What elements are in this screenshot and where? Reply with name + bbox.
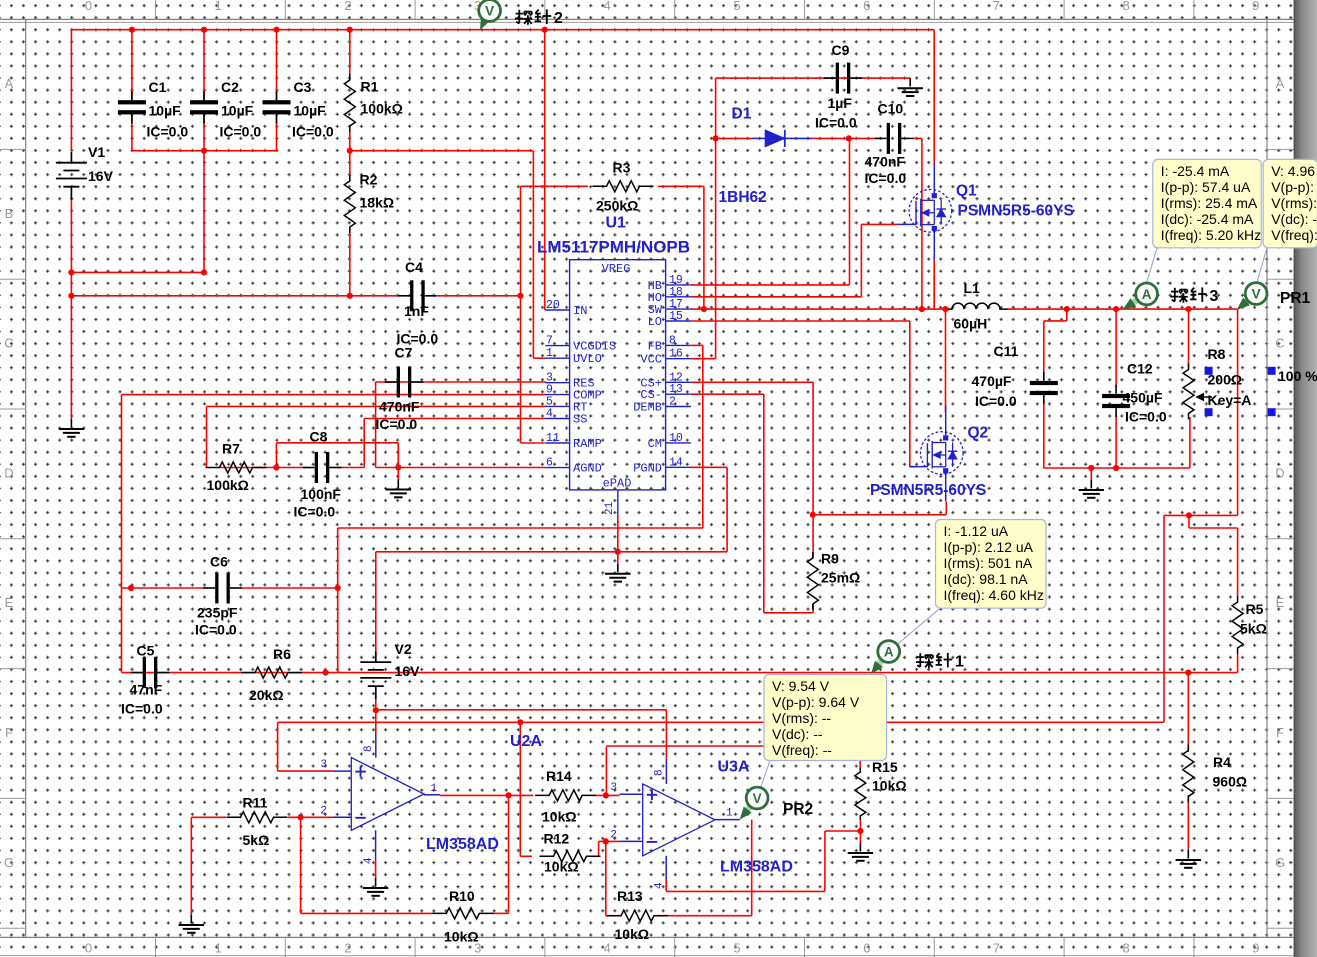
svg-text:5: 5 [733, 0, 740, 13]
wire VCC row [691, 358, 716, 360]
wire C11 bottom [1043, 402, 1045, 468]
ground ePAD [617, 552, 619, 564]
op-amp-style IC U1 LM5117 box [570, 260, 666, 490]
svg-text:R13: R13 [617, 888, 643, 904]
ruler row ticks left and right [0, 148, 26, 150]
wire C6 row left [122, 587, 206, 589]
resistor R6 [241, 667, 302, 678]
wire R10 row left [301, 912, 433, 914]
transistor Q1 circle [909, 190, 952, 233]
U1 pin 5 RT [545, 405, 569, 407]
svg-text:8: 8 [1122, 941, 1129, 956]
svg-text:RAMP: RAMP [573, 437, 602, 451]
svg-text:100nF: 100nF [301, 486, 342, 502]
U1 pin 10 CM [666, 442, 691, 444]
svg-text:V(p-p):: V(p-p): [1271, 179, 1314, 195]
svg-text:100kΩ: 100kΩ [207, 477, 249, 493]
wire C10 down to SW [921, 138, 923, 309]
svg-text:470µF: 470µF [972, 373, 1012, 389]
wire top 16V bus [71, 29, 934, 31]
svg-text:SS: SS [573, 413, 587, 427]
wire RAMP pin feed [521, 442, 545, 444]
wire C7 left down to AGND [375, 382, 377, 468]
svg-text:10µF: 10µF [149, 103, 182, 119]
wire R9 bottom row [764, 612, 813, 614]
svg-text:IC=0.0: IC=0.0 [147, 124, 189, 140]
battery V2 [375, 651, 377, 662]
svg-text:10: 10 [669, 432, 683, 445]
wire sense column crossing bus [1163, 515, 1165, 722]
wire CS- down [763, 394, 765, 613]
measurement box I -1.12uA [936, 520, 1047, 609]
probe PR1 V circle [1245, 283, 1267, 305]
svg-text:C11: C11 [994, 343, 1019, 359]
wire R3 left down to C4 node [520, 186, 522, 295]
svg-text:C2: C2 [221, 79, 239, 95]
svg-text:9: 9 [1252, 941, 1259, 956]
svg-text:16V: 16V [395, 663, 421, 679]
svg-text:PR1: PR1 [1280, 290, 1311, 307]
wire Vout row2 [1189, 527, 1238, 529]
U1 pin 2 DEMB [666, 406, 691, 408]
U1 pin 13 CS- [666, 393, 691, 395]
wire C12 top [1115, 309, 1117, 387]
svg-text:IC=0.0: IC=0.0 [815, 115, 857, 131]
wire U3A pin4 red [665, 880, 667, 892]
resistor R14 [535, 790, 596, 801]
svg-text:C5: C5 [137, 643, 155, 659]
svg-text:470nF: 470nF [865, 154, 906, 170]
wire U3A pin3 up [605, 746, 607, 795]
svg-text:C6: C6 [210, 554, 228, 570]
capacitor C9 [836, 63, 839, 94]
wire V1 minus down to ground [70, 199, 72, 407]
svg-text:C8: C8 [310, 429, 328, 445]
ground R4 [1187, 849, 1189, 851]
wire output voltage bus [122, 672, 1238, 674]
svg-text:V(dc): --: V(dc): -- [1271, 211, 1317, 227]
svg-text:PSMN5R5-60YS: PSMN5R5-60YS [870, 482, 986, 499]
probe label tanzhen1 [916, 653, 952, 668]
svg-text:I: -1.12 uA: I: -1.12 uA [944, 523, 1009, 539]
capacitor C2 [190, 100, 218, 104]
svg-text:A: A [5, 76, 14, 91]
svg-text:7: 7 [993, 0, 1000, 13]
svg-text:F: F [1276, 725, 1284, 740]
wire COMP row [122, 394, 547, 396]
battery V1 [70, 152, 72, 163]
resistor R7 [206, 462, 267, 473]
svg-text:5kΩ: 5kΩ [1240, 621, 1267, 637]
wire R11 right to pin2 [288, 816, 333, 818]
svg-text:21: 21 [604, 501, 616, 515]
wire HB row [691, 284, 850, 286]
svg-text:1BH62: 1BH62 [719, 189, 767, 206]
svg-text:5: 5 [733, 941, 740, 956]
svg-text:47nF: 47nF [130, 682, 163, 698]
wire R14 right to U3A pin3 [596, 794, 620, 796]
svg-text:8: 8 [669, 334, 676, 347]
wire R15 top hidden [859, 746, 861, 769]
wire U2A pin3 lead [278, 770, 333, 772]
wire output jog left [1044, 320, 1067, 322]
ground C9 [909, 78, 911, 86]
svg-text:18kΩ: 18kΩ [360, 195, 395, 211]
wire C1 bottom [131, 113, 133, 151]
svg-text:R12: R12 [544, 831, 570, 847]
wire R8 top [1188, 309, 1190, 366]
wire PGND stub row [691, 466, 727, 468]
U3A pin stubs [620, 793, 643, 795]
svg-text:LM358AD: LM358AD [426, 836, 499, 853]
svg-text:8: 8 [654, 769, 666, 776]
svg-text:1µF: 1µF [828, 95, 853, 111]
svg-text:2: 2 [320, 806, 327, 818]
wire R5 bottom [1237, 654, 1239, 673]
probe PR2 V arrow [745, 806, 751, 813]
svg-text:9: 9 [1252, 0, 1259, 13]
U1 pin 19 HB [666, 284, 691, 286]
svg-text:R11: R11 [243, 795, 268, 811]
op-amp U3A plus minus [647, 794, 658, 796]
svg-text:1: 1 [955, 654, 964, 671]
svg-text:LM358AD: LM358AD [720, 859, 793, 876]
probe PR-top V circle [479, 0, 501, 21]
svg-text:3: 3 [320, 759, 327, 771]
capacitor C4 [410, 280, 413, 311]
ruler band frame lines [0, 18, 1294, 20]
capacitor C6 [215, 573, 218, 604]
wire U2A pin3 drop [277, 722, 279, 771]
wire Q1 gate lead red [861, 223, 898, 225]
svg-text:AGND: AGND [573, 462, 602, 476]
diode D1 [752, 137, 765, 139]
U1 pin 4 SS [545, 418, 569, 420]
svg-text:R10: R10 [449, 888, 475, 904]
svg-text:3: 3 [610, 782, 617, 794]
svg-text:60µH: 60µH [954, 316, 988, 332]
wire C2 bottom [203, 113, 205, 151]
wire U3A pin4 ground row [666, 890, 825, 892]
svg-text:2: 2 [610, 830, 617, 842]
svg-text:C: C [1275, 336, 1284, 351]
svg-text:R8: R8 [1208, 346, 1226, 362]
svg-text:D: D [4, 465, 13, 480]
svg-text:B: B [5, 206, 14, 221]
wire Vout jog [1188, 515, 1190, 528]
wire Q2 drain red [945, 309, 947, 412]
svg-text:L1: L1 [964, 280, 981, 296]
svg-text:4: 4 [604, 0, 611, 13]
svg-text:5: 5 [546, 395, 553, 408]
transistor Q2 internals [926, 443, 928, 467]
wire SS row [364, 418, 546, 420]
svg-text:10kΩ: 10kΩ [872, 778, 907, 794]
wire U3A pin2 row [599, 840, 620, 842]
wire UVLO into pin1 [533, 357, 545, 359]
svg-text:Q2: Q2 [968, 425, 989, 442]
svg-text:C3: C3 [294, 79, 312, 95]
svg-text:R9: R9 [821, 551, 839, 567]
probe PR1 V arrow [1242, 300, 1248, 305]
svg-text:3: 3 [1210, 288, 1219, 305]
wire RAMP gnd piece [276, 442, 398, 444]
svg-text:PGND: PGND [633, 461, 662, 475]
wire C9 row [716, 77, 911, 79]
svg-text:U3A: U3A [718, 759, 750, 776]
U1 pin 11 RAMP [545, 442, 569, 444]
svg-text:13: 13 [669, 383, 683, 396]
svg-text:4: 4 [654, 882, 666, 889]
wire C3 top [276, 30, 278, 102]
wire FB stub row [691, 344, 703, 346]
svg-text:7: 7 [993, 941, 1000, 956]
capacitor C11 [1030, 381, 1058, 385]
wire COMP column [121, 395, 123, 673]
svg-text:V: 9.54 V: V: 9.54 V [772, 678, 830, 694]
wire RAMP piece left drop [275, 443, 277, 468]
wire R1-R2 link [349, 132, 351, 180]
svg-text:100 %: 100 % [1278, 368, 1317, 384]
svg-text:V: 4.96 V: V: 4.96 V [1271, 163, 1317, 179]
svg-text:IC=0.0: IC=0.0 [292, 124, 334, 140]
wire U3A output down [751, 820, 753, 916]
wire RT row [207, 405, 546, 407]
svg-text:R6: R6 [273, 646, 291, 662]
op-amp U2A triangle [351, 758, 424, 831]
wire V1 to C-bank ground link [71, 271, 204, 273]
probe probe1 A arrow [876, 660, 882, 668]
callout line V 9.54 [761, 761, 771, 789]
svg-text:IC=0.0: IC=0.0 [121, 701, 163, 717]
wire R3 right lead row [658, 185, 704, 187]
wire R7 C8 AGND row left [220, 467, 306, 469]
svg-text:2: 2 [344, 941, 351, 956]
wire R15 ground row [825, 830, 861, 832]
U1 pin 9 COMP [545, 394, 569, 396]
wire D1 cathode to C10 [812, 137, 875, 139]
svg-text:R15: R15 [872, 759, 898, 775]
svg-text:V(p-p): 9.64 V: V(p-p): 9.64 V [772, 694, 860, 710]
svg-text:A: A [1276, 76, 1285, 91]
resistor R13 [607, 910, 668, 921]
svg-text:PR2: PR2 [783, 801, 813, 818]
probe label tanzhen3 [1171, 287, 1207, 302]
ground R15 [859, 842, 861, 844]
resistor R3 [593, 181, 654, 192]
wire R3 left lead row [521, 185, 589, 187]
svg-text:10kΩ: 10kΩ [615, 926, 650, 942]
wire C4 row right [437, 295, 521, 297]
wire ground to C4 row left [71, 295, 398, 297]
wire D1 anode lead [716, 137, 752, 139]
op-amp U3A triangle [643, 784, 715, 856]
wire CS+ down to R9 top [812, 382, 814, 558]
resistor R2 [344, 175, 355, 233]
svg-text:20kΩ: 20kΩ [249, 687, 284, 703]
wire IN column from bus [544, 30, 546, 310]
probe PR-top V arrow [482, 20, 485, 25]
svg-text:I(freq): 4.60 kHz: I(freq): 4.60 kHz [944, 587, 1044, 603]
svg-text:470nF: 470nF [379, 399, 420, 415]
svg-text:D: D [1275, 465, 1284, 480]
wire PGND column down [726, 467, 728, 552]
svg-text:235pF: 235pF [197, 605, 238, 621]
wire HO up to Q1 gate [860, 224, 862, 296]
svg-text:I: -25.4 mA: I: -25.4 mA [1161, 163, 1230, 179]
measurement box V 9.54 [764, 675, 887, 761]
svg-text:2: 2 [669, 396, 676, 409]
svg-text:I(p-p): 57.4 uA: I(p-p): 57.4 uA [1161, 179, 1251, 195]
wire R13 row [606, 915, 619, 917]
svg-text:VREG: VREG [602, 262, 631, 276]
svg-text:LO: LO [648, 315, 662, 329]
svg-text:DEMB: DEMB [633, 401, 662, 415]
svg-text:I(freq): 5.20 kHz: I(freq): 5.20 kHz [1161, 227, 1261, 243]
svg-text:A: A [884, 645, 894, 660]
svg-text:960Ω: 960Ω [1213, 774, 1248, 790]
wire C1 top [131, 30, 133, 102]
svg-text:V(rms):: V(rms): [1271, 195, 1317, 211]
capacitor C10 [887, 123, 890, 154]
svg-text:250kΩ: 250kΩ [596, 198, 638, 214]
probe probe3 A circle [1136, 283, 1158, 305]
svg-text:R4: R4 [1213, 754, 1231, 770]
svg-text:I(rms): 25.4 mA: I(rms): 25.4 mA [1161, 195, 1258, 211]
svg-text:IC=0.0: IC=0.0 [220, 124, 262, 140]
wire C9 left down to D1 anode and VCC [715, 78, 717, 359]
svg-text:C4: C4 [405, 259, 423, 275]
svg-text:IC=0.0: IC=0.0 [376, 416, 418, 432]
wire L1 output row [1008, 308, 1238, 310]
svg-text:10µF: 10µF [221, 103, 254, 119]
svg-text:R5: R5 [1246, 601, 1264, 617]
wire V1 plus to bus [70, 30, 72, 150]
ruler column ticks top and bottom [155, 0, 157, 19]
wire C8 right up to SS [363, 419, 365, 468]
svg-text:R3: R3 [613, 160, 631, 176]
resistor R10 [432, 908, 493, 919]
wire C11 top [1043, 321, 1045, 374]
callout line I -1.12uA [896, 608, 940, 645]
svg-text:V: V [1252, 287, 1261, 302]
svg-text:0: 0 [85, 941, 92, 956]
svg-text:CM: CM [648, 437, 662, 451]
wire V2 minus to dot [375, 699, 377, 711]
wire C2 junction down [203, 151, 205, 273]
wire U3A pin3 node row [606, 745, 860, 747]
callout line I -25.4mA [1146, 248, 1157, 284]
svg-text:16V: 16V [88, 168, 114, 184]
wire C10 right [913, 137, 922, 139]
svg-text:8: 8 [363, 745, 375, 752]
svg-text:5kΩ: 5kΩ [243, 832, 270, 848]
svg-text:1: 1 [215, 941, 222, 956]
svg-text:V: V [485, 4, 494, 19]
wire LO down to Q2 gate [909, 321, 911, 467]
wire Q2 gate lead red [910, 466, 917, 468]
U1 pin 8 FB [666, 344, 691, 346]
svg-text:IC=0.0: IC=0.0 [1125, 409, 1167, 425]
wire Q2 source red [945, 502, 947, 515]
svg-text:IC=0.0: IC=0.0 [865, 170, 907, 186]
wire R11 left to ground [190, 817, 192, 915]
wire R15 bottom red [859, 820, 861, 831]
svg-text:C12: C12 [1127, 361, 1153, 377]
svg-text:G: G [1275, 855, 1285, 870]
wire C1-C3 bottoms [132, 150, 277, 152]
wire PGND row [376, 551, 727, 553]
svg-text:R7: R7 [222, 441, 240, 457]
svg-text:C1: C1 [149, 79, 167, 95]
svg-text:U1: U1 [606, 215, 627, 232]
svg-text:Q1: Q1 [956, 183, 977, 200]
wire R3 right down to SW row [703, 186, 705, 309]
wire R10 row right [493, 912, 509, 914]
U1 pin 6 AGND [545, 467, 569, 469]
svg-text:C: C [4, 336, 13, 351]
wire HO row [691, 296, 862, 298]
wire Vout row1 [1164, 514, 1238, 516]
svg-text:IC=0.0: IC=0.0 [195, 622, 237, 638]
wire FB column down [702, 345, 704, 528]
capacitor C1 [118, 100, 146, 104]
svg-text:4: 4 [604, 941, 611, 956]
U1 pin 3 RES [545, 382, 569, 384]
svg-text:10µF: 10µF [294, 103, 327, 119]
U1 pin 18 HO [666, 296, 691, 298]
wire C3 bottom [276, 113, 278, 151]
svg-text:V1: V1 [88, 144, 105, 160]
wire U2A pin8 red [375, 710, 377, 734]
wire R13 right row [655, 915, 752, 917]
svg-text:200Ω: 200Ω [1208, 372, 1243, 388]
svg-text:1nF: 1nF [404, 303, 429, 319]
svg-text:IC=0.0: IC=0.0 [975, 393, 1017, 409]
svg-text:14: 14 [669, 456, 683, 469]
U1 pin 20 IN [545, 309, 569, 311]
capacitor C3 [263, 100, 291, 104]
wire R2 bottom [349, 228, 351, 296]
wire AGND row right [376, 467, 546, 469]
wire R8 bottom [1189, 417, 1191, 468]
probe PR2 V circle [746, 787, 768, 809]
wire Q1 source red [933, 259, 935, 309]
wire V2 plus column [375, 552, 377, 652]
svg-text:7: 7 [546, 335, 553, 348]
svg-text:R14: R14 [546, 768, 572, 784]
svg-text:2: 2 [344, 0, 351, 13]
svg-text:6: 6 [546, 457, 553, 470]
wire R15 ground drop [859, 831, 861, 843]
svg-text:R2: R2 [360, 172, 378, 188]
op-amp U2A plus minus [355, 771, 366, 773]
inductor L1 [948, 303, 1008, 309]
probe probe3 A arrow [1129, 300, 1137, 306]
svg-text:IC=0.0: IC=0.0 [294, 504, 336, 520]
resistor R9 [807, 552, 818, 610]
resistor R5 [1232, 596, 1243, 654]
U1 pin 12 CS+ [666, 381, 691, 383]
svg-text:V2: V2 [395, 641, 412, 657]
ground U2A pin4 [375, 877, 377, 879]
svg-text:IN: IN [573, 304, 587, 318]
resistor R4 [1183, 745, 1194, 803]
U1 pin 7 VCGDIS [545, 345, 569, 347]
svg-text:VCC: VCC [640, 353, 662, 367]
wire output right column [1237, 309, 1239, 515]
sheet edge shadow [1294, 0, 1317, 957]
